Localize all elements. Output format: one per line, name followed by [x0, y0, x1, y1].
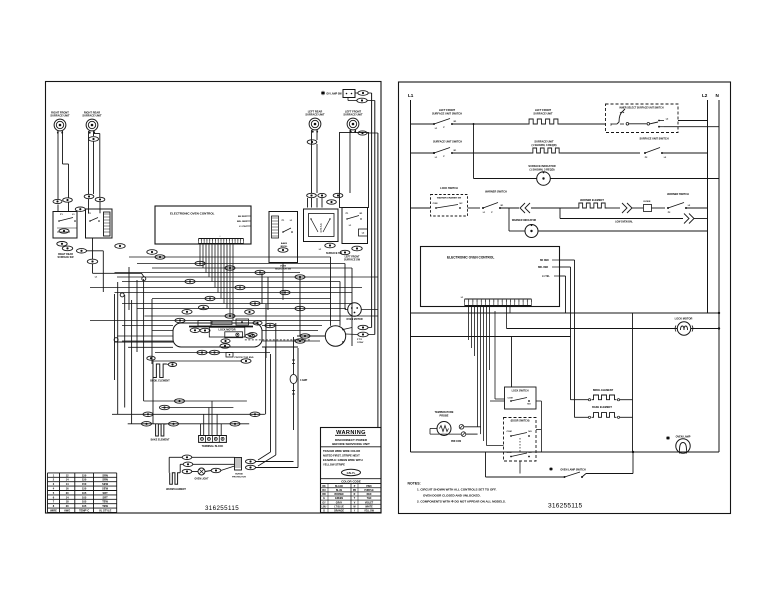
svg-text:PURPLE: PURPLE [364, 490, 374, 492]
svg-text:S: S [610, 123, 612, 127]
svg-text:L1 YEL: L1 YEL [239, 226, 247, 228]
svg-text:TRACER WIRE WIRE COLOR: TRACER WIRE WIRE COLOR [323, 449, 360, 453]
svg-text:YELLOW: YELLOW [364, 511, 375, 513]
svg-text:SURFACE INDICATOR: SURFACE INDICATOR [528, 164, 555, 168]
svg-text:1. CIRCUIT SHOWN WITH ALL CON: 1. CIRCUIT SHOWN WITH ALL CONTROLS SET T… [417, 488, 497, 492]
svg-text:BLUE: BLUE [336, 490, 343, 492]
svg-text:BAKE: BAKE [281, 242, 288, 245]
svg-text:OVEN LAMP SWITCH: OVEN LAMP SWITCH [560, 469, 586, 472]
svg-text:GN-YL: GN-YL [347, 471, 356, 475]
svg-text:WIRE: WIRE [50, 508, 57, 512]
svg-text:O: O [323, 511, 325, 513]
svg-text:LOCK MOTOR: LOCK MOTOR [675, 317, 693, 321]
svg-text:BK RED: BK RED [238, 216, 247, 218]
svg-text:150: 150 [82, 478, 87, 482]
svg-text:TERMINAL BLOCK: TERMINAL BLOCK [202, 445, 224, 448]
svg-text:SURGE: SURGE [235, 474, 243, 476]
svg-text:TEW: TEW [102, 500, 108, 504]
svg-text:NOTES:: NOTES: [408, 482, 421, 486]
svg-text:SEW: SEW [102, 487, 108, 491]
svg-text:WARM ELEMENT: WARM ELEMENT [166, 488, 186, 491]
svg-text:L1 YEL: L1 YEL [542, 276, 550, 278]
svg-text:SURFACE UNIT: SURFACE UNIT [533, 112, 553, 116]
svg-text:ELECTRONIC OVEN CONTROL: ELECTRONIC OVEN CONTROL [447, 256, 494, 260]
svg-text:SURFACE SW: SURFACE SW [58, 256, 75, 259]
svg-text:UL STYLE: UL STYLE [99, 508, 112, 512]
svg-text:P TO: P TO [357, 339, 362, 341]
svg-text:SURFACE UNIT: SURFACE UNIT [82, 114, 102, 118]
svg-text:SRT: SRT [103, 491, 109, 495]
svg-text:PROTECTOR: PROTECTOR [232, 476, 246, 478]
svg-text:NO: NO [528, 431, 532, 433]
svg-text:BR: BR [322, 494, 326, 496]
svg-text:LOW OVEN BAL: LOW OVEN BAL [615, 221, 633, 224]
svg-text:OVEN LIGHT: OVEN LIGHT [194, 479, 209, 481]
svg-text:(DOOR SWITCH): (DOOR SWITCH) [511, 420, 530, 423]
svg-text:AWG: AWG [64, 508, 70, 512]
svg-text:DPS 5-8: DPS 5-8 [320, 223, 323, 233]
svg-text:GY: GY [322, 502, 326, 504]
svg-text:SRN: SRN [102, 473, 108, 477]
svg-text:OVEN MOTOR: OVEN MOTOR [346, 318, 363, 321]
svg-text:SURFACE UNIT SWITCH: SURFACE UNIT SWITCH [432, 112, 462, 116]
svg-text:WARNER INDICATOR: WARNER INDICATOR [512, 219, 537, 222]
svg-text:BK RED: BK RED [540, 260, 549, 262]
svg-text:CONV: CONV [357, 342, 364, 344]
svg-text:BRL RED: BRL RED [237, 221, 247, 223]
svg-text:SRN: SRN [102, 478, 108, 482]
svg-text:LOCK SWITCH: LOCK SWITCH [512, 390, 529, 393]
svg-text:SELECTOR SW: SELECTOR SW [275, 269, 292, 271]
svg-text:WARNER ELEMENT: WARNER ELEMENT [580, 199, 604, 202]
svg-text:PROTECTOR END: PROTECTOR END [235, 357, 254, 359]
svg-text:SURFACE UNIT: SURFACE UNIT [305, 113, 325, 117]
svg-text:150: 150 [82, 473, 87, 477]
svg-text:WARNER SWITCH: WARNER SWITCH [667, 193, 689, 196]
svg-text:INNER SELECT SURFACE UNIT SWIT: INNER SELECT SURFACE UNIT SWITCH [619, 107, 663, 110]
svg-text:ELECTRONIC OVEN CONTROL: ELECTRONIC OVEN CONTROL [170, 212, 215, 216]
svg-text:OVEN DOOR CLOSED AND UNLOCKED.: OVEN DOOR CLOSED AND UNLOCKED. [423, 494, 481, 498]
svg-text:YELLOW STRIPE: YELLOW STRIPE [323, 463, 345, 467]
svg-text:105: 105 [82, 491, 87, 495]
svg-text:COLOR CODE: COLOR CODE [341, 480, 361, 484]
svg-text:WHITE: WHITE [365, 506, 373, 508]
svg-text:TAN: TAN [367, 497, 372, 500]
svg-text:OV LAMP SW: OV LAMP SW [326, 93, 342, 96]
svg-text:SURFACE UNIT SWITCH: SURFACE UNIT SWITCH [433, 141, 462, 144]
svg-text:SURFACE SW: SURFACE SW [344, 259, 361, 262]
svg-text:BROWN: BROWN [335, 494, 344, 496]
svg-text:150: 150 [82, 487, 87, 491]
svg-text:SURFACE UNIT SWITCH: SURFACE UNIT SWITCH [639, 138, 668, 141]
svg-text:316255115: 316255115 [205, 505, 239, 512]
svg-text:L2: L2 [702, 93, 708, 98]
svg-text:LOCK SWITCH: LOCK SWITCH [440, 187, 458, 190]
svg-text:COM: COM [507, 398, 512, 400]
svg-text:LT BLUE: LT BLUE [334, 506, 344, 508]
svg-text:150: 150 [82, 482, 87, 486]
svg-text:105: 105 [82, 500, 87, 504]
svg-text:BRL RED: BRL RED [538, 267, 549, 269]
svg-text:BROIL ELEMENT: BROIL ELEMENT [593, 389, 614, 392]
svg-text:4 AMP: 4 AMP [300, 379, 308, 382]
svg-text:LEFT FRONT: LEFT FRONT [535, 108, 552, 112]
svg-text:L1: L1 [408, 93, 414, 98]
svg-text:105: 105 [82, 495, 87, 499]
svg-text:316255115: 316255115 [548, 503, 582, 510]
svg-text:BU: BU [322, 490, 326, 492]
svg-text:WARNER DRAWER SW: WARNER DRAWER SW [437, 197, 462, 200]
svg-text:SRT: SRT [103, 495, 109, 499]
svg-text:SURFACE UNIT: SURFACE UNIT [534, 140, 554, 144]
svg-text:(1 SHOWN, 3 REQD): (1 SHOWN, 3 REQD) [532, 143, 557, 147]
svg-text:NO: NO [527, 404, 531, 406]
svg-text:SURFACE UNIT: SURFACE UNIT [343, 113, 363, 117]
svg-text:ORANGE: ORANGE [334, 510, 345, 513]
svg-text:BLACK: BLACK [335, 485, 343, 488]
svg-text:BK: BK [322, 486, 326, 488]
svg-text:DIODE: DIODE [644, 201, 651, 203]
svg-text:OVEN LAMP: OVEN LAMP [676, 436, 691, 439]
svg-text:VIOLET: VIOLET [365, 502, 374, 504]
svg-text:TEMP°C: TEMP°C [79, 508, 89, 512]
svg-text:105: 105 [82, 504, 87, 508]
svg-text:NC: NC [459, 203, 463, 205]
svg-text:NOTED FIRST, STRIPE NEXT: NOTED FIRST, STRIPE NEXT [323, 454, 360, 458]
svg-text:LOCK MOTOR: LOCK MOTOR [218, 329, 235, 332]
svg-text:(1 SHOWN, 3 REQD): (1 SHOWN, 3 REQD) [530, 168, 555, 172]
svg-text:SURFACE UNIT: SURFACE UNIT [50, 114, 70, 118]
svg-text:GRAY: GRAY [336, 501, 343, 504]
svg-text:COM: COM [506, 431, 511, 433]
svg-text:BEFORE SERVICING UNIT: BEFORE SERVICING UNIT [332, 442, 370, 446]
svg-text:2. COMPONENTS WITH ※ DO NOT: 2. COMPONENTS WITH ※ DO NOT APPEAR ON AL… [417, 499, 506, 504]
svg-text:LBU: LBU [322, 506, 327, 508]
svg-text:G: G [323, 498, 325, 500]
svg-text:SEW: SEW [102, 482, 108, 486]
svg-text:BAKE ELEMENT: BAKE ELEMENT [592, 406, 612, 409]
svg-text:WARNER SWITCH: WARNER SWITCH [485, 191, 507, 194]
svg-text:TEW: TEW [102, 504, 108, 508]
svg-text:PROBE: PROBE [440, 415, 449, 418]
svg-text:BAKE ELEMENT: BAKE ELEMENT [151, 439, 170, 442]
svg-text:LEFT FRONT: LEFT FRONT [439, 108, 456, 112]
svg-text:COM: COM [433, 203, 438, 205]
svg-text:PR: PR [353, 490, 357, 492]
svg-text:PINK: PINK [366, 486, 372, 488]
svg-text:RED: RED [367, 494, 372, 496]
svg-text:GREEN: GREEN [335, 498, 344, 500]
svg-text:P88 COM: P88 COM [451, 441, 461, 443]
svg-text:EXAMPLE: GREEN WIRE WITH: EXAMPLE: GREEN WIRE WITH [323, 458, 363, 462]
